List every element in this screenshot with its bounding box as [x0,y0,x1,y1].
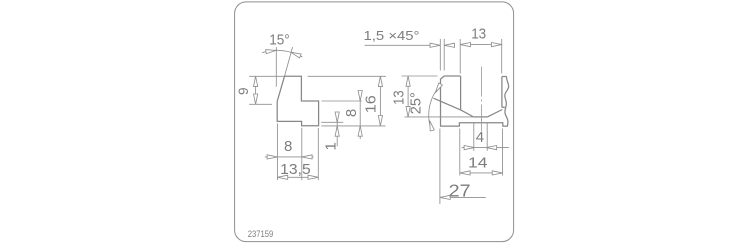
extension line 1 top [321,121,343,123]
arrow 14 left [460,171,470,175]
14 extension line left [459,129,461,176]
extension line bottom middle (8) [301,128,303,180]
arrow 4 right [486,146,496,150]
svg-text:27: 27 [449,181,471,201]
arrow 1 bottom (up) [335,126,339,136]
arrow 16 top [378,76,382,86]
arrow 8 bottom left [267,155,277,159]
svg-text:8: 8 [284,138,292,155]
vertical reference line for 15 deg [275,47,277,87]
dimension line 16 [379,76,381,126]
border frame [235,2,514,242]
svg-text:237159: 237159 [248,229,273,239]
extension line bottom left (8 and 13,5) [276,124,278,181]
arrow 4 left [464,146,474,150]
svg-text:25°: 25° [408,92,425,114]
14 dimension line [460,172,503,174]
27 dimension line [440,196,486,198]
4 extension line right [486,123,488,151]
svg-text:13: 13 [391,90,408,105]
V right flank [487,110,502,117]
13 top extension line right [501,39,503,74]
arrow 15deg left [266,48,277,53]
14 extension line right [502,129,504,176]
27 extension line [439,129,441,205]
slant extension line for 15 deg [285,47,293,76]
extension line 9 bottom [249,103,272,105]
dimension line 13,5 [277,176,318,178]
svg-text:13: 13 [471,26,486,43]
25 deg arc [429,86,440,125]
arrow 8 right bottom (up) [358,126,362,136]
arrow 13 left top [406,76,410,86]
dimension line 9 [255,76,257,104]
arrow 9 top [254,76,258,86]
arrow 9 bottom [254,94,258,104]
arrow 13,5 left [277,175,287,179]
extension line step right [322,100,362,102]
svg-text:15°: 15° [269,32,290,48]
15 deg dimension arc [262,50,302,57]
arrow 15deg right [290,50,301,58]
right part left piece [441,76,509,126]
V left flank + 25deg extension [434,98,474,117]
slot right wall [501,77,503,108]
13 left extension top [401,75,437,77]
4 dimension line [462,147,509,149]
chamfer extension line left [439,39,441,71]
svg-text:1,5 ×45°: 1,5 ×45° [364,28,420,43]
left part outline [277,76,318,126]
4 extension line left [473,123,475,151]
top edge left piece [444,75,460,77]
arrow 16 bottom [378,116,382,126]
arrow 1,5x45 leader [430,43,440,47]
extension line bottom right (13,5) [317,128,319,180]
arrow 8 right top (down) [358,91,362,101]
break line squiggle [505,77,509,127]
arrow 1,5x45 right [444,43,454,47]
chamfer extension line right [443,39,445,71]
dimension line 8 right [359,91,361,140]
svg-text:16: 16 [362,95,379,113]
svg-text:9: 9 [236,87,251,95]
1,5 right arrow tail [444,44,453,46]
V flat bottom [474,116,488,118]
extension line top left for 9 [249,75,284,77]
13 top extension line left [459,39,461,74]
svg-text:13,5: 13,5 [280,161,311,178]
arrow 27 left [440,195,450,199]
arrow 25deg top [433,83,442,94]
13 top dimension line [460,44,502,46]
dimension line 8 bottom [265,156,314,158]
arrow 13,5 right [308,175,318,179]
svg-text:14: 14 [468,154,488,171]
arrow 13 top right [491,43,501,47]
arrow 13 left bottom [406,107,410,117]
arrow 13 top left [460,43,470,47]
top edge right piece [502,76,507,78]
arrow 1 top (down) [335,112,339,122]
arrow 8 bottom right [302,155,312,159]
svg-text:4: 4 [476,129,484,146]
slot left wall [460,76,462,110]
leader 1,5x45 [365,44,441,46]
arrow 14 right [492,171,502,175]
arrow 25deg bottom [428,120,435,131]
V bottom extension long [405,116,474,118]
centerline [480,67,482,132]
extension line top right for 16 [308,75,386,77]
svg-text:8: 8 [343,109,360,117]
13 left dimension line [407,76,409,117]
svg-text:1: 1 [323,142,340,150]
small ledge [502,106,505,108]
extension line lip bottom [321,125,385,127]
dimension line 1 [336,112,338,147]
